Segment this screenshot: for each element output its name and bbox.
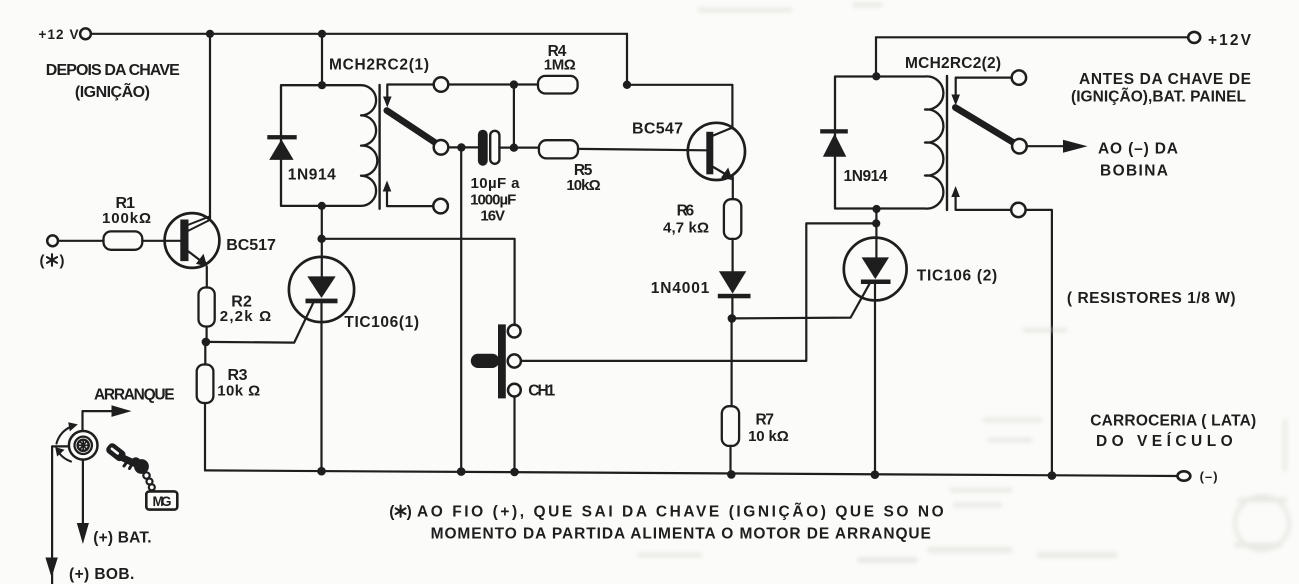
capacitor C1 plate left: [478, 130, 488, 166]
junction R4 right: [623, 81, 631, 89]
svg-text:CARROCERIA ( LATA): CARROCERIA ( LATA): [1090, 413, 1256, 430]
wire gate node to TIC106(2) gate: [732, 284, 870, 319]
svg-text:1000µF: 1000µF: [470, 191, 516, 208]
SCR TIC106(2): [844, 209, 907, 300]
relay1 armature down arrow: [383, 85, 434, 108]
junction TIC106(2) anode node: [872, 219, 880, 227]
junction rail relay2: [1048, 471, 1057, 480]
diode D3 1N4001: [718, 271, 751, 298]
wire junction to R3: [204, 342, 206, 365]
wire R4 node down to cap node: [513, 85, 515, 148]
relay1 contact middle: [434, 140, 449, 155]
relay2 armature down arrow: [951, 78, 1011, 106]
svg-text:ARRANQUE: ARRANQUE: [94, 387, 175, 404]
wire rail down to relay1 coil top: [321, 34, 323, 85]
svg-text:( RESISTORES 1/8 W): ( RESISTORES 1/8 W): [1067, 290, 1236, 307]
svg-text:1N914: 1N914: [288, 167, 336, 184]
wire R3 to ground rail: [204, 403, 206, 470]
wire relay1 top contact to R4: [448, 83, 538, 85]
wire emitter to R2: [206, 267, 208, 288]
relay2 contact bottom: [1011, 203, 1025, 217]
arrowhead (+) BOB: [45, 558, 57, 578]
resistor R1: [104, 231, 143, 249]
wire relay1 middle contact to capacitor: [448, 146, 478, 148]
svg-text:10k Ω: 10k Ω: [217, 383, 260, 400]
terminal +12V right: [1188, 32, 1200, 43]
transistor Q1 BC517: [165, 213, 220, 268]
svg-text:1N4001: 1N4001: [651, 280, 710, 297]
SCR TIC106(1): [289, 206, 354, 322]
junction rail TIC2: [871, 470, 880, 479]
relay2 armature: [955, 108, 1015, 144]
svg-text:MCH2RC2(2): MCH2RC2(2): [905, 55, 1001, 72]
relay2 contact middle: [1012, 139, 1027, 154]
wire CH1 bottom contact to rail: [513, 397, 515, 473]
svg-text:BOBINA: BOBINA: [1100, 162, 1168, 179]
svg-text:MCH2RC2(1): MCH2RC2(1): [329, 57, 429, 74]
junction relay1 coil bottom: [318, 202, 326, 210]
svg-text:10 kΩ: 10 kΩ: [748, 428, 789, 445]
junction rail cap node: [457, 467, 466, 476]
ignition key: [104, 442, 154, 491]
relay2 NO arrow up: [951, 186, 1011, 210]
svg-text:(+) BAT.: (+) BAT.: [93, 530, 151, 547]
wire anode node to CH1 top contact: [322, 239, 515, 325]
relay1 armature: [387, 111, 437, 144]
svg-text:MOMENTO DA PARTIDA ALIMENTA O: MOMENTO DA PARTIDA ALIMENTA O MOTOR DE A…: [431, 526, 931, 543]
relay1 contact bottom: [433, 199, 448, 214]
wire capacitor to R5: [499, 147, 539, 149]
svg-text:BC517: BC517: [226, 237, 276, 254]
resistor R2: [199, 288, 215, 327]
svg-text:CH1: CH1: [528, 383, 555, 400]
wire to (+) BAT: [82, 460, 84, 530]
svg-text:R6: R6: [677, 202, 695, 219]
wire R1 to base: [142, 240, 180, 242]
svg-text:AO FIO (+), QUE SAI DA CHAVE (: AO FIO (+), QUE SAI DA CHAVE (IGNIÇÃO) Q…: [417, 503, 944, 521]
svg-text:10µF a: 10µF a: [471, 175, 521, 192]
svg-text:1N914: 1N914: [844, 168, 888, 185]
curved arrow upper: [57, 422, 78, 443]
junction relay2 coil top: [872, 72, 880, 80]
background bleed-through ghosts: [640, 5, 1289, 560]
relay1 contact top: [434, 77, 449, 92]
relay1 core: [378, 85, 380, 209]
tag MG: [146, 491, 177, 509]
curved arrow lower: [55, 447, 71, 461]
wire rail down to relay2 coil: [875, 37, 877, 76]
svg-text:BC547: BC547: [632, 120, 683, 137]
svg-text:+12V: +12V: [1208, 32, 1252, 49]
terminal input (*): [47, 235, 58, 246]
relay1 NO arrow up: [383, 181, 434, 207]
wire SCR1 cathode to rail: [320, 303, 322, 471]
junction relay1 coil top: [318, 81, 326, 89]
wire +12V right rail: [876, 36, 1188, 38]
junction cap right node: [510, 144, 518, 152]
junction anode CH1 branch: [317, 235, 325, 243]
note asterisk star: [396, 506, 406, 517]
svg-text:+12 V: +12 V: [39, 27, 79, 42]
wire gate of TIC106(1): [206, 302, 314, 342]
svg-text:(IGNIÇÃO): (IGNIÇÃO): [75, 81, 150, 101]
wire SCR2 cathode to rail: [874, 284, 876, 475]
svg-text:AO (–) DA: AO (–) DA: [1098, 141, 1178, 158]
svg-text:ANTES DA CHAVE DE: ANTES DA CHAVE DE: [1079, 71, 1251, 88]
svg-text:TIC106(1): TIC106(1): [344, 314, 419, 331]
wire to (+) BOB: [52, 446, 69, 584]
wire R4 to BC547 collector: [627, 85, 732, 129]
svg-text:MG: MG: [153, 494, 172, 509]
terminal +12V left: [80, 28, 91, 39]
wire rail corner down to R4 right: [626, 34, 628, 85]
resistor R3: [197, 365, 214, 404]
relay2 core: [946, 76, 948, 210]
wire R2 to junction: [206, 327, 208, 342]
capacitor C1 plate right: [490, 131, 499, 164]
resistor R7: [722, 406, 739, 446]
wire R6 to 1N4001: [731, 239, 733, 271]
svg-text:2,2k Ω: 2,2k Ω: [220, 308, 271, 325]
transistor Q2 BC547: [688, 123, 745, 180]
junction gate node TIC106(2): [728, 314, 737, 323]
wire 1N4001 to gate node: [731, 298, 733, 318]
junction rail TIC1: [317, 467, 326, 476]
junction top rail to relay1: [318, 30, 326, 38]
svg-text:(+) BOB.: (+) BOB.: [69, 566, 134, 583]
junction R2 R3 gate node: [202, 338, 211, 347]
wire CH1 middle to TIC106(2) anode: [521, 223, 876, 361]
wire relay2 bottom contact to rail: [1026, 210, 1052, 476]
wire rail down to BC517 collector: [209, 34, 211, 219]
arrow to ARRANQUE: [83, 405, 132, 430]
ground rail: [205, 470, 1178, 476]
wire cap node down to rail: [460, 148, 462, 472]
svg-text:DEPOIS DA CHAVE: DEPOIS DA CHAVE: [46, 62, 180, 79]
diode D2 1N914: [820, 129, 848, 157]
junction cap discharge node: [457, 143, 465, 151]
svg-text:(IGNIÇÃO),BAT. PAINEL: (IGNIÇÃO),BAT. PAINEL: [1071, 88, 1246, 106]
svg-text:TIC106 (2): TIC106 (2): [917, 268, 997, 285]
terminal (-): [1178, 471, 1191, 480]
asterisk (*) marker: [40, 253, 65, 270]
junction top rail to BC517: [206, 30, 214, 38]
relay2 contact top: [1012, 70, 1026, 84]
relay MCH2RC2(1) coil box: [281, 85, 377, 206]
svg-text:R7: R7: [756, 412, 775, 429]
wire top rail left: [91, 33, 627, 35]
svg-text:100kΩ: 100kΩ: [102, 210, 151, 227]
resistor R5: [539, 140, 578, 158]
junction rail R7: [727, 470, 736, 479]
arrowhead (+) BAT: [77, 523, 89, 544]
svg-text:(: (: [40, 253, 45, 270]
wire gate node to R7: [730, 318, 732, 406]
junction relay2 coil bottom: [872, 205, 880, 213]
wire input to R1: [58, 240, 103, 242]
resistor R4: [538, 76, 578, 94]
ignition switch symbol: [69, 431, 98, 460]
svg-text:1MΩ: 1MΩ: [544, 56, 576, 73]
arrow AO bobina: [1027, 140, 1088, 153]
diode D1 1N914: [267, 135, 296, 160]
relay MCH2RC2(2) coil box: [835, 76, 943, 208]
svg-text:(–): (–): [1200, 469, 1218, 484]
svg-text:DO VEÍCULO: DO VEÍCULO: [1096, 433, 1233, 450]
wire R7 to rail: [729, 446, 731, 474]
svg-text:4,7 kΩ: 4,7 kΩ: [663, 220, 709, 237]
junction rail CH1: [510, 468, 519, 477]
junction R4 node top: [510, 80, 518, 88]
svg-text:): ): [60, 253, 65, 270]
pushbutton CH1: [471, 324, 521, 398]
wire BC547 emitter to R6: [732, 177, 734, 199]
svg-text:10kΩ: 10kΩ: [566, 177, 600, 194]
wire R5 to BC547 base: [578, 149, 706, 150]
svg-text:16V: 16V: [480, 208, 505, 225]
resistor R6: [724, 199, 741, 239]
